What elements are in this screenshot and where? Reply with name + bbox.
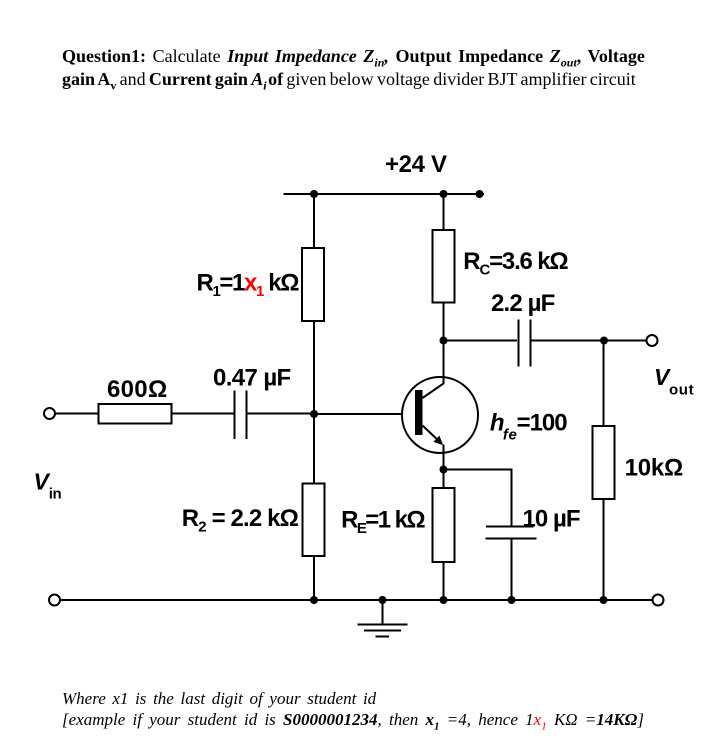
wire top supply rail xyxy=(284,193,485,195)
resistor RE xyxy=(433,488,455,562)
wire ground stub xyxy=(382,600,384,625)
node junction top rail left xyxy=(310,190,318,198)
node output junction xyxy=(600,337,608,345)
svg-text:10 µF: 10 µF xyxy=(523,506,581,533)
wire base node to R2 xyxy=(313,414,315,484)
svg-text:R1=1x1 kΩ: R1=1x1 kΩ xyxy=(197,270,300,301)
wire emitter node to C3 branch xyxy=(444,470,512,527)
svg-text:2.2 µF: 2.2 µF xyxy=(491,290,555,317)
resistor 600 ohm xyxy=(99,404,172,424)
node junction ground symbol rail xyxy=(379,596,387,604)
capacitor C2 2.2uF plates xyxy=(518,320,520,367)
transistor Q1 emitter lead xyxy=(423,426,442,444)
resistor RC xyxy=(433,230,455,303)
wire C3 bottom to ground rail xyxy=(511,539,513,601)
terminal bottom-left circle xyxy=(49,595,60,606)
resistor R2 xyxy=(303,484,325,557)
svg-text:+24 V: +24 V xyxy=(385,151,447,178)
transistor Q1 base bar xyxy=(415,390,423,435)
wire R1 bottom to base node xyxy=(313,321,315,414)
node junction C3-ground rail xyxy=(508,596,516,604)
wire collector node to C2 xyxy=(444,340,518,342)
node E emitter junction xyxy=(440,466,448,474)
wire RC top (rail to RC) xyxy=(443,194,445,230)
svg-text:fe: fe xyxy=(503,427,517,444)
footer note text xyxy=(62,688,722,730)
svg-text:RE=1 kΩ: RE=1 kΩ xyxy=(341,507,426,538)
node junction R2-ground rail xyxy=(310,596,318,604)
svg-text:0.47 µF: 0.47 µF xyxy=(213,365,291,392)
wire output node to RL xyxy=(603,341,605,427)
node B base junction xyxy=(310,410,318,418)
terminal bottom-right circle xyxy=(653,595,664,606)
node junction RE-ground rail xyxy=(440,596,448,604)
wire 600 ohm to C1 xyxy=(172,413,234,415)
svg-text:out: out xyxy=(669,382,694,399)
resistor R1 xyxy=(302,248,324,321)
wire output node to terminal xyxy=(604,340,647,342)
svg-text:R2 = 2.2 kΩ: R2 = 2.2 kΩ xyxy=(182,505,299,536)
wire R2 bottom to ground rail xyxy=(313,556,315,600)
header question text xyxy=(62,45,722,91)
node junction top rail end xyxy=(476,190,484,198)
svg-text:RC=3.6 kΩ: RC=3.6 kΩ xyxy=(463,248,568,279)
svg-text:in: in xyxy=(49,486,62,503)
wire base node to transistor base xyxy=(314,413,415,415)
terminal input circle xyxy=(44,408,55,419)
wire emitter to emitter node xyxy=(443,445,445,470)
node junction RL-ground rail xyxy=(600,596,608,604)
wire emitter node to RE xyxy=(443,470,445,489)
transistor Q1 collector lead xyxy=(423,341,444,399)
wire bottom ground rail xyxy=(60,599,653,601)
node C collector junction xyxy=(440,337,448,345)
capacitor C1 0.47uF plates xyxy=(234,391,236,440)
wire input to 600 ohm resistor xyxy=(55,413,99,415)
wire C2 to output node xyxy=(532,340,605,342)
wire RE bottom to ground rail xyxy=(443,562,445,600)
wire RC bottom to collector node xyxy=(443,303,445,341)
svg-text:10kΩ: 10kΩ xyxy=(625,455,684,482)
wire R1 top (rail to R1) xyxy=(313,194,315,248)
transistor Q1 emitter arrowhead xyxy=(433,436,443,446)
ground symbol xyxy=(358,624,408,626)
terminal output circle xyxy=(647,335,658,346)
resistor RL 10k xyxy=(593,426,615,499)
wire RL bottom to ground rail xyxy=(603,499,605,600)
node junction top rail RC xyxy=(440,190,448,198)
svg-text:=100: =100 xyxy=(517,410,568,437)
svg-text:600Ω: 600Ω xyxy=(107,376,167,403)
transistor Q1 circle xyxy=(402,377,478,453)
capacitor C3 10uF plates xyxy=(486,526,534,528)
wire C1 to base node xyxy=(248,413,315,415)
